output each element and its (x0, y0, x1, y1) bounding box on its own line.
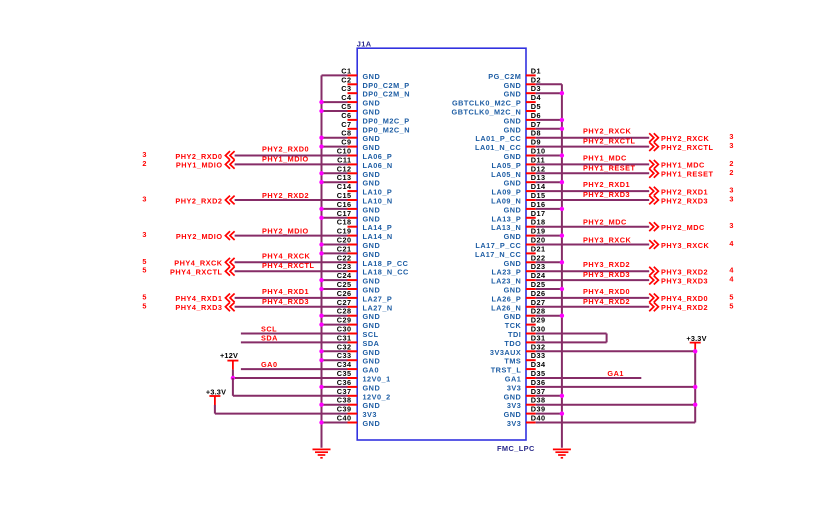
svg-text:GND: GND (363, 286, 381, 295)
svg-text:D13: D13 (531, 173, 546, 182)
pin C37 (12V0_2) (337, 387, 391, 402)
pin C2 (DP0_C2M_P) (341, 75, 409, 90)
junction D10 (560, 153, 564, 157)
svg-text:GND: GND (504, 205, 522, 214)
pin C8 (GND) (341, 129, 380, 144)
wire D6 GND to bus (536, 119, 562, 121)
wire C28 GND to bus (322, 315, 348, 317)
svg-text:D37: D37 (531, 387, 546, 396)
wire D3 GND to bus (536, 92, 562, 94)
pin C10 (LA06_P) (337, 147, 393, 162)
pin D34 (TRST_L) (491, 360, 546, 375)
svg-text:D30: D30 (531, 325, 546, 334)
junction D13 (560, 180, 564, 184)
wire C24 GND to bus (322, 279, 348, 281)
svg-text:LA26_P: LA26_P (492, 294, 522, 303)
svg-text:GA0: GA0 (261, 360, 278, 369)
net label PHY1_MDIO (262, 154, 309, 163)
svg-text:LA17_P_CC: LA17_P_CC (475, 241, 521, 250)
svg-text:FMC_LPC: FMC_LPC (497, 444, 535, 453)
wire D40 (3V3) to +3.3V (536, 422, 696, 424)
svg-text:PHY4_RXD2: PHY4_RXD2 (661, 303, 708, 312)
svg-text:TDI: TDI (508, 330, 521, 339)
svg-text:C13: C13 (337, 173, 352, 182)
junction C12 (319, 171, 323, 175)
svg-text:LA10_N: LA10_N (363, 197, 393, 206)
junction C8 (319, 136, 323, 140)
svg-text:C37: C37 (337, 387, 352, 396)
svg-text:C18: C18 (337, 218, 352, 227)
svg-text:PHY4_RXCK: PHY4_RXCK (262, 251, 311, 260)
svg-text:D35: D35 (531, 369, 546, 378)
svg-text:C32: C32 (337, 342, 352, 351)
net label PHY2_RXD3 (583, 190, 630, 199)
svg-text:LA09_N: LA09_N (491, 197, 521, 206)
svg-text:PHY3_RXCK: PHY3_RXCK (583, 236, 632, 245)
wire D16 GND to bus (536, 208, 562, 210)
svg-text:D4: D4 (531, 93, 542, 102)
wire D18 net PHY2_MDC (536, 226, 650, 228)
svg-text:GND: GND (504, 232, 522, 241)
pin C33 (GND) (337, 351, 380, 366)
pin D16 (GND) (504, 200, 546, 215)
pin C4 (GND) (341, 93, 380, 108)
off-page connector PHY1_MDC (page 2) (649, 159, 733, 170)
svg-text:PHY1_RESET: PHY1_RESET (583, 163, 635, 172)
pin C22 (LA18_P_CC) (337, 253, 409, 268)
net label PHY2_RXCK (583, 127, 632, 136)
svg-text:C28: C28 (337, 307, 352, 316)
svg-text:D23: D23 (531, 262, 546, 271)
svg-text:C30: C30 (337, 325, 352, 334)
net label PHY2_MDC (583, 218, 627, 227)
svg-text:D6: D6 (531, 111, 541, 120)
svg-text:C39: C39 (337, 405, 352, 414)
svg-text:4: 4 (729, 239, 734, 248)
svg-text:D27: D27 (531, 298, 546, 307)
off-page connector PHY2_RXD0 (page 3) (142, 150, 234, 161)
wire C26 net PHY4_RXD1 (235, 297, 348, 299)
pin D26 (LA26_P) (492, 289, 546, 304)
pin C36 (GND) (337, 378, 380, 393)
svg-text:D16: D16 (531, 200, 546, 209)
pin D8 (LA01_P_CC) (475, 129, 541, 144)
net label PHY4_RXD1 (262, 287, 309, 296)
wire D25 GND to bus (536, 288, 562, 290)
svg-text:C12: C12 (337, 164, 352, 173)
net label PHY4_RXD3 (262, 297, 309, 306)
svg-text:GND: GND (363, 205, 381, 214)
svg-text:C7: C7 (341, 120, 351, 129)
wire C32 GND to bus (322, 350, 348, 352)
pin C18 (LA14_P) (337, 218, 393, 233)
off-page connector PHY2_RXCTL (page 3) (649, 141, 733, 152)
wire D20 net PHY3_RXCK (536, 244, 650, 246)
wire C27 net PHY4_RXD3 (235, 306, 348, 308)
wire D13 GND to bus (536, 181, 562, 183)
svg-text:D20: D20 (531, 236, 546, 245)
junction D39 (560, 411, 564, 415)
svg-text:LA05_P: LA05_P (492, 161, 522, 170)
svg-text:PHY1_MDC: PHY1_MDC (661, 161, 705, 170)
svg-text:LA14_N: LA14_N (363, 232, 393, 241)
svg-text:SCL: SCL (261, 325, 277, 334)
wire D2 GND to bus (536, 83, 562, 85)
svg-text:C20: C20 (337, 236, 352, 245)
svg-text:GND: GND (363, 179, 381, 188)
net label PHY3_RXCK (583, 236, 632, 245)
wire D15 net PHY2_RXD3 (536, 199, 650, 201)
svg-text:J1A: J1A (357, 40, 372, 49)
svg-text:LA09_P: LA09_P (492, 188, 522, 197)
pin C14 (LA10_P) (337, 182, 393, 197)
wire D22 GND to bus (536, 261, 562, 263)
wire GND bus left vertical (321, 75, 323, 447)
pin C11 (LA06_N) (337, 155, 393, 170)
wire C4 GND to bus (322, 101, 348, 103)
junction D7 (560, 127, 564, 131)
pin C23 (LA18_N_CC) (337, 262, 409, 277)
wire D38 (3V3) to +3.3V (536, 404, 696, 406)
svg-text:3V3: 3V3 (507, 401, 521, 410)
pin D22 (GND) (504, 253, 546, 268)
svg-text:PHY2_MDIO: PHY2_MDIO (176, 232, 223, 241)
wire D27 net PHY4_RXD2 (536, 306, 650, 308)
svg-text:DP0_C2M_P: DP0_C2M_P (363, 81, 410, 90)
svg-text:LA18_N_CC: LA18_N_CC (363, 268, 409, 277)
svg-text:PHY2_RXD1: PHY2_RXD1 (661, 187, 708, 196)
pin D10 (GND) (504, 147, 546, 162)
wire +12V to C37 (12V0_2) (233, 395, 348, 397)
svg-text:C27: C27 (337, 298, 352, 307)
net label SDA (261, 333, 278, 342)
svg-text:PHY1_MDIO: PHY1_MDIO (262, 154, 309, 163)
svg-text:D15: D15 (531, 191, 546, 200)
svg-text:GND: GND (363, 277, 381, 286)
net label PHY2_MDIO (262, 227, 309, 236)
junction C21 (319, 251, 323, 255)
pin C5 (GND) (341, 102, 380, 117)
svg-text:D38: D38 (531, 396, 546, 405)
pin D15 (LA09_N) (491, 191, 545, 206)
svg-text:C24: C24 (337, 271, 352, 280)
pin C32 (GND) (337, 342, 380, 357)
svg-text:C16: C16 (337, 200, 352, 209)
net label PHY2_RXD1 (583, 180, 630, 189)
svg-text:C25: C25 (337, 280, 352, 289)
svg-text:GND: GND (504, 259, 522, 268)
wire C20 GND to bus (322, 244, 348, 246)
svg-text:C36: C36 (337, 378, 352, 387)
wire +12V down to C37 row (232, 378, 234, 396)
svg-text:12V0_2: 12V0_2 (363, 392, 391, 401)
svg-text:LA06_P: LA06_P (363, 152, 393, 161)
svg-text:GND: GND (363, 99, 381, 108)
svg-text:PHY2_RXD0: PHY2_RXD0 (175, 152, 222, 161)
wire D23 net PHY3_RXD2 (536, 270, 650, 272)
pin D29 (TCK) (505, 316, 546, 331)
off-page connector PHY4_RXD0 (page 5) (649, 292, 733, 303)
net label SCL (261, 325, 277, 334)
svg-text:PHY1_MDC: PHY1_MDC (583, 153, 627, 162)
net label PHY3_RXD2 (583, 260, 630, 269)
wire C25 GND to bus (322, 288, 348, 290)
net label PHY4_RXCK (262, 251, 311, 260)
svg-text:GND: GND (504, 81, 522, 90)
wire GND bus right vertical (561, 84, 563, 448)
wire C16 GND to bus (322, 208, 348, 210)
net label PHY1_MDC (583, 153, 627, 162)
junction +12V at C35 row (231, 376, 235, 380)
svg-text:+3.3V: +3.3V (206, 387, 226, 396)
svg-text:C29: C29 (337, 316, 352, 325)
svg-text:GND: GND (363, 357, 381, 366)
junction D25 (560, 287, 564, 291)
svg-text:LA17_N_CC: LA17_N_CC (475, 250, 521, 259)
pin D39 (GND) (504, 405, 546, 420)
svg-text:2: 2 (729, 168, 733, 177)
svg-text:D31: D31 (531, 333, 546, 342)
svg-text:PHY4_RXD3: PHY4_RXD3 (175, 303, 222, 312)
pin D31 (TDO) (504, 333, 545, 348)
svg-text:D22: D22 (531, 253, 546, 262)
svg-text:LA26_N: LA26_N (491, 303, 521, 312)
svg-text:4: 4 (729, 275, 734, 284)
wire D10 GND to bus (536, 155, 562, 157)
power symbol +3.3V right (686, 334, 706, 352)
wire D9 net PHY2_RXCTL (536, 146, 650, 148)
junction C20 (319, 242, 323, 246)
junction D22 (560, 260, 564, 264)
wire C12 GND to bus (322, 172, 348, 174)
svg-text:PHY2_RXD3: PHY2_RXD3 (661, 196, 708, 205)
svg-text:5: 5 (142, 257, 146, 266)
pin D33 (TMS) (504, 351, 545, 366)
svg-text:PHY1_MDIO: PHY1_MDIO (176, 161, 223, 170)
pin D25 (GND) (504, 280, 546, 295)
pin D7 (GND) (504, 120, 541, 135)
svg-text:LA27_P: LA27_P (363, 294, 393, 303)
svg-text:3V3: 3V3 (507, 419, 521, 428)
svg-text:LA05_N: LA05_N (491, 170, 521, 179)
off-page connector PHY3_RXD2 (page 4) (649, 266, 734, 277)
svg-text:DP0_C2M_N: DP0_C2M_N (363, 90, 411, 99)
svg-text:D1: D1 (531, 66, 541, 75)
svg-text:5: 5 (142, 266, 146, 275)
junction D37 (560, 394, 564, 398)
pin D40 (3V3) (507, 414, 546, 429)
svg-text:LA01_N_CC: LA01_N_CC (475, 143, 521, 152)
junction D36 (693, 385, 697, 389)
svg-text:C35: C35 (337, 369, 352, 378)
wire +3.3V to C39 (3V3) (215, 413, 348, 415)
svg-text:GND: GND (504, 179, 522, 188)
svg-text:D18: D18 (531, 218, 546, 227)
svg-text:D29: D29 (531, 316, 546, 325)
pin D38 (3V3) (507, 396, 546, 411)
pin C24 (GND) (337, 271, 380, 286)
svg-text:GND: GND (363, 250, 381, 259)
svg-text:PHY4_RXCTL: PHY4_RXCTL (262, 261, 314, 270)
wire D28 GND to bus (536, 315, 562, 317)
svg-text:PHY4_RXD0: PHY4_RXD0 (661, 294, 708, 303)
svg-text:PHY4_RXD2: PHY4_RXD2 (583, 297, 630, 306)
junction D28 (560, 314, 564, 318)
junction D19 (560, 233, 564, 237)
refdes J1A (357, 40, 372, 49)
net label PHY2_RXCTL (583, 137, 635, 146)
wire C22 net PHY4_RXCK (235, 261, 348, 263)
wire C5 GND to bus (322, 110, 348, 112)
wire D32 (3V3AUX) to +3.3V (536, 350, 696, 352)
junction C25 (319, 287, 323, 291)
pin D2 (GND) (504, 75, 541, 90)
svg-text:PHY2_RXD0: PHY2_RXD0 (262, 145, 309, 154)
off-page connector PHY4_RXD3 (page 5) (142, 301, 234, 312)
svg-text:PHY2_RXCK: PHY2_RXCK (661, 134, 710, 143)
svg-text:D25: D25 (531, 280, 546, 289)
pin C31 (SDA) (337, 333, 380, 348)
svg-text:GA1: GA1 (505, 375, 522, 384)
svg-text:C6: C6 (341, 111, 351, 120)
wire D14 net PHY2_RXD1 (536, 190, 650, 192)
svg-text:C5: C5 (341, 102, 351, 111)
pin C17 (GND) (337, 209, 380, 224)
svg-text:GND: GND (363, 143, 381, 152)
svg-text:SCL: SCL (363, 330, 379, 339)
svg-text:GND: GND (363, 241, 381, 250)
wire C30 net SCL (241, 333, 348, 335)
svg-text:+12V: +12V (220, 351, 238, 360)
svg-text:3: 3 (729, 195, 733, 204)
off-page connector PHY1_RESET (page 2) (649, 168, 733, 179)
wire D30 TDI loop (536, 333, 607, 335)
svg-text:GND: GND (363, 312, 381, 321)
wire D7 GND to bus (536, 128, 562, 130)
pin D20 (LA17_P_CC) (475, 236, 545, 251)
wire C17 GND to bus (322, 217, 348, 219)
svg-text:D2: D2 (531, 75, 541, 84)
svg-text:C1: C1 (341, 66, 351, 75)
svg-text:PHY3_RXD3: PHY3_RXD3 (583, 270, 630, 279)
pin D17 (LA13_P) (492, 209, 546, 224)
pin C21 (GND) (337, 244, 380, 259)
svg-text:GND: GND (504, 116, 522, 125)
svg-text:GND: GND (363, 108, 381, 117)
svg-text:GND: GND (504, 152, 522, 161)
svg-text:LA14_P: LA14_P (363, 223, 393, 232)
svg-text:12V0_1: 12V0_1 (363, 375, 391, 384)
pin C16 (GND) (337, 200, 380, 215)
svg-text:2: 2 (142, 159, 146, 168)
svg-text:C10: C10 (337, 147, 352, 156)
svg-text:TMS: TMS (504, 357, 521, 366)
svg-text:3: 3 (142, 150, 146, 159)
wire D11 net PHY1_MDC (536, 163, 650, 165)
wire C9 GND to bus (322, 146, 348, 148)
svg-text:C3: C3 (341, 84, 351, 93)
svg-text:PHY4_RXD3: PHY4_RXD3 (262, 297, 309, 306)
svg-text:D9: D9 (531, 138, 541, 147)
svg-text:C2: C2 (341, 75, 351, 84)
pin D3 (GND) (504, 84, 541, 99)
wire TDI-TDO vertical (606, 334, 608, 343)
pin C20 (GND) (337, 236, 380, 251)
wire C13 GND to bus (322, 181, 348, 183)
svg-text:PHY2_RXD3: PHY2_RXD3 (583, 190, 630, 199)
svg-text:TRST_L: TRST_L (491, 366, 522, 375)
pin D27 (LA26_N) (491, 298, 545, 313)
svg-text:3: 3 (729, 221, 733, 230)
svg-text:PHY4_RXD0: PHY4_RXD0 (583, 287, 630, 296)
svg-text:SDA: SDA (363, 339, 380, 348)
svg-text:SDA: SDA (261, 333, 278, 342)
svg-text:LA13_P: LA13_P (492, 214, 522, 223)
net label PHY2_RXD2 (262, 191, 309, 200)
pin D32 (3V3AUX) (490, 342, 546, 357)
pin D24 (LA23_N) (491, 271, 546, 286)
svg-text:D26: D26 (531, 289, 546, 298)
svg-text:D12: D12 (531, 164, 546, 173)
svg-text:3: 3 (142, 230, 146, 239)
off-page connector PHY2_MDC (page 3) (649, 221, 733, 232)
svg-text:3: 3 (142, 195, 146, 204)
power symbol +12V (220, 351, 238, 378)
svg-text:PHY1_RESET: PHY1_RESET (661, 170, 713, 179)
off-page connector PHY4_RXCTL (page 5) (142, 266, 234, 277)
power symbol +3.3V left (206, 387, 226, 413)
pin D35 (GA1) (505, 369, 546, 384)
wire D12 net PHY1_RESET (536, 172, 650, 174)
svg-text:C33: C33 (337, 351, 352, 360)
pin C40 (GND) (337, 414, 380, 429)
pin C19 (LA14_N) (337, 227, 393, 242)
svg-text:D10: D10 (531, 147, 546, 156)
svg-text:D14: D14 (531, 182, 546, 191)
wire D31 TDO loop (536, 341, 607, 343)
off-page connector PHY2_RXD1 (page 3) (649, 186, 733, 197)
svg-text:LA27_N: LA27_N (363, 303, 393, 312)
pin D5 (GBTCLK0_M2C_N) (452, 102, 541, 117)
svg-text:D21: D21 (531, 244, 546, 253)
svg-text:GND: GND (363, 419, 381, 428)
svg-text:3V3: 3V3 (507, 383, 521, 392)
pin D30 (TDI) (508, 325, 546, 340)
svg-text:C4: C4 (341, 93, 352, 102)
wire C19 net PHY2_MDIO (235, 235, 348, 237)
svg-text:PHY2_MDC: PHY2_MDC (661, 223, 705, 232)
svg-text:C22: C22 (337, 253, 352, 262)
junction C29 (319, 322, 323, 326)
svg-text:C40: C40 (337, 414, 352, 423)
ground symbol left (313, 449, 331, 457)
wire C29 GND to bus (322, 324, 348, 326)
svg-text:PHY2_RXCTL: PHY2_RXCTL (661, 143, 713, 152)
svg-text:TDO: TDO (504, 339, 521, 348)
junction D6 (560, 118, 564, 122)
pin C27 (LA27_N) (337, 298, 393, 313)
svg-text:GA1: GA1 (607, 369, 624, 378)
off-page connector PHY4_RXCK (page 5) (142, 257, 234, 268)
net label PHY3_RXD3 (583, 270, 630, 279)
junction D38 (693, 403, 697, 407)
svg-text:D40: D40 (531, 414, 546, 423)
wire D35 net GA1 (536, 377, 642, 379)
off-page connector PHY4_RXD2 (page 5) (649, 301, 733, 312)
wire C31 net SDA (241, 341, 348, 343)
net label PHY4_RXCTL (262, 261, 314, 270)
junction C9 (319, 144, 323, 148)
